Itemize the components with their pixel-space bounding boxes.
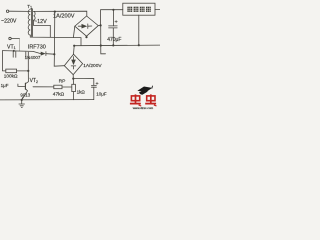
ground rail bbox=[0, 99, 94, 101]
wire gate vertical bbox=[27, 52, 29, 71]
svg-text:VT2: VT2 bbox=[30, 78, 38, 84]
svg-text:1μF: 1μF bbox=[1, 83, 9, 88]
svg-text:VT1: VT1 bbox=[7, 44, 16, 50]
node mosfet drain bbox=[13, 50, 15, 52]
wire B1 left vertex to AC line bbox=[73, 26, 74, 37]
wire gate network line bbox=[3, 51, 41, 54]
svg-text:~220V: ~220V bbox=[1, 19, 17, 25]
svg-text:10μF: 10μF bbox=[96, 92, 107, 97]
transistor VT2 emitter bbox=[22, 89, 28, 100]
bridge B2 diode bbox=[71, 60, 76, 66]
bridge B1 diode bbox=[82, 24, 88, 29]
regulator box bbox=[123, 3, 155, 15]
node rail cap bottom bbox=[112, 44, 114, 46]
node B2 bottom bbox=[72, 78, 74, 80]
transformer T1 primary winding bbox=[28, 10, 30, 35]
node junction secondary top bbox=[54, 11, 56, 13]
wire B2 bottom bbox=[72, 75, 74, 79]
wire VT2 base bbox=[18, 84, 26, 86]
node diode junction bbox=[53, 53, 55, 55]
node B1 bottom on AC line bbox=[86, 36, 88, 37]
svg-text:47kΩ: 47kΩ bbox=[53, 92, 65, 98]
node B1 right bbox=[100, 24, 102, 26]
capacitor C2 10uF bbox=[91, 84, 96, 86]
node cap C1 top bbox=[112, 9, 114, 11]
wire box bottom lead bbox=[138, 15, 140, 45]
resistor R1 100k box bbox=[6, 69, 17, 73]
wire to cap C2 bbox=[73, 78, 94, 85]
mosfet VT1 bars bbox=[12, 51, 14, 57]
wire B2 top to rail bbox=[73, 46, 76, 55]
svg-text:RP: RP bbox=[59, 79, 66, 85]
wire secondary top rail bbox=[34, 11, 87, 16]
wire top terminal to primary bbox=[9, 10, 31, 12]
wire R1 to gate node bbox=[17, 70, 29, 72]
ground symbol bbox=[21, 100, 23, 104]
svg-text:1A/200V: 1A/200V bbox=[83, 63, 102, 69]
svg-text:T1: T1 bbox=[27, 4, 32, 10]
potentiometer RP box bbox=[54, 85, 62, 89]
svg-text:www.dzsc.com: www.dzsc.com bbox=[133, 106, 154, 110]
watermark chongchong red glyphs bbox=[130, 94, 157, 106]
capacitor C1 470uF bbox=[112, 10, 114, 26]
regulator box text (4 CJK-like glyphs drawn) bbox=[127, 7, 151, 12]
wire secondary bottom lead bbox=[34, 20, 51, 37]
wire bottom terminal down to gate line bbox=[11, 38, 19, 40]
bridge B2 diamond bbox=[64, 54, 82, 74]
terminal bottom-left bbox=[9, 37, 11, 39]
wire B1 right down across rail bbox=[101, 25, 106, 53]
diode VD1 1N4007 bbox=[41, 52, 46, 56]
resistor R3 1k vertical bbox=[72, 79, 74, 85]
watermark hat bbox=[137, 86, 153, 95]
wire B1 right vertex to DC+ bbox=[98, 10, 123, 26]
wire box output right bbox=[155, 9, 160, 11]
node rail box lead bbox=[138, 44, 140, 46]
svg-text:1kΩ: 1kΩ bbox=[77, 89, 86, 94]
wire primary bottom / AC line A bbox=[30, 35, 81, 46]
wire gate node down to VT2 collector bbox=[26, 71, 29, 84]
transformer T1 secondary winding bbox=[34, 11, 36, 20]
terminal top-left bbox=[6, 10, 8, 12]
node ground bbox=[21, 99, 23, 101]
svg-text:9013: 9013 bbox=[20, 93, 30, 98]
wire RP to R3 bbox=[62, 86, 72, 88]
wire DC- rail bbox=[74, 44, 160, 47]
wire base line to RP bbox=[33, 86, 54, 88]
wire vertical from top junction down to bridge B2 left bbox=[54, 12, 64, 67]
node rail bridge right bbox=[100, 44, 102, 46]
svg-text:470μF: 470μF bbox=[107, 37, 121, 43]
svg-text:IRF730: IRF730 bbox=[28, 45, 46, 51]
bridge B1 diamond bbox=[75, 16, 99, 36]
svg-text:1N4007: 1N4007 bbox=[25, 55, 41, 60]
svg-text:100kΩ: 100kΩ bbox=[4, 73, 18, 78]
wire left drop to R1 bbox=[3, 51, 6, 71]
node rail B2 top bbox=[73, 45, 75, 47]
transformer T1 core bbox=[31, 9, 33, 37]
svg-text:~12V: ~12V bbox=[34, 19, 47, 25]
transistor VT2 base bar bbox=[24, 83, 26, 89]
svg-text:1A/200V: 1A/200V bbox=[53, 14, 75, 20]
node gate divider bbox=[27, 70, 29, 72]
